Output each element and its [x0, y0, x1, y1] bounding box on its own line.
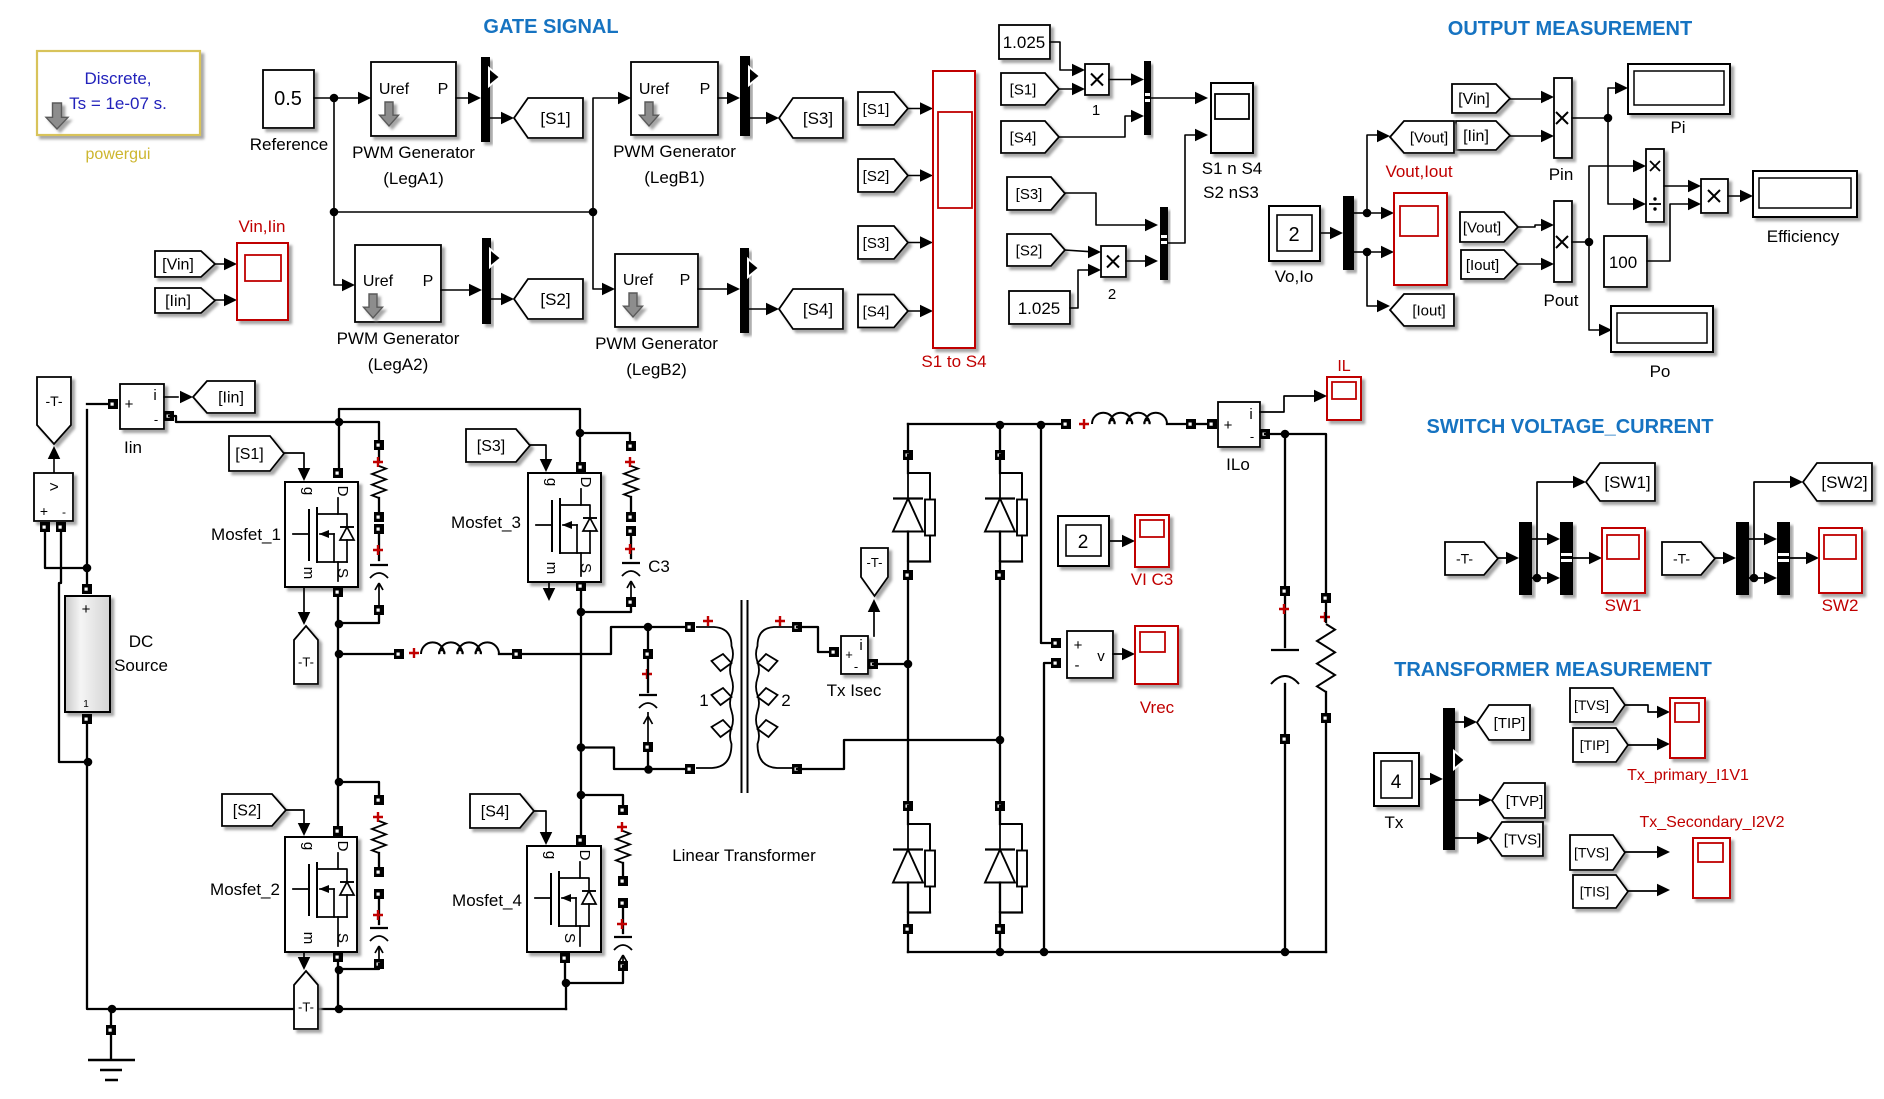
svg-text:[TVS]: [TVS] [1574, 844, 1609, 860]
svg-text:[S1]: [S1] [235, 446, 263, 463]
svg-text:[SW2]: [SW2] [1821, 473, 1867, 492]
svg-text:1.025: 1.025 [1018, 299, 1061, 318]
svg-text:Vrec: Vrec [1140, 698, 1175, 717]
svg-text:+: + [40, 503, 48, 519]
svg-text:Tx Isec: Tx Isec [827, 681, 882, 700]
svg-text:[Vin]: [Vin] [162, 257, 194, 274]
svg-text:g: g [542, 851, 559, 859]
svg-text:[Vout]: [Vout] [1410, 129, 1448, 146]
svg-text:>: > [49, 479, 58, 496]
svg-text:g: g [300, 842, 317, 850]
svg-text:S1 n S4: S1 n S4 [1202, 159, 1263, 178]
svg-text:m: m [543, 562, 560, 575]
svg-text:IL: IL [1337, 358, 1350, 375]
svg-text:Pin: Pin [1549, 165, 1574, 184]
svg-text:Source: Source [114, 656, 168, 675]
svg-text:GATE SIGNAL: GATE SIGNAL [483, 16, 618, 38]
svg-text:DC: DC [129, 632, 154, 651]
svg-text:[S2]: [S2] [1016, 242, 1043, 259]
svg-text:Uref: Uref [363, 273, 394, 290]
svg-text:[Iin]: [Iin] [165, 293, 191, 310]
svg-text:[SW1]: [SW1] [1604, 473, 1650, 492]
svg-text:[TVP]: [TVP] [1506, 793, 1544, 810]
svg-text:-T-: -T- [1456, 550, 1473, 566]
svg-text:P: P [680, 272, 691, 289]
svg-text:P: P [700, 81, 711, 98]
svg-text:1: 1 [83, 699, 89, 710]
svg-text:SW2: SW2 [1822, 596, 1859, 615]
svg-text:Uref: Uref [639, 81, 670, 98]
svg-text:PWM Generator: PWM Generator [337, 329, 460, 348]
svg-text:D: D [577, 477, 594, 488]
svg-text:Po: Po [1650, 362, 1671, 381]
svg-text:i: i [153, 387, 156, 404]
svg-text:+: + [845, 647, 853, 662]
svg-text:C3: C3 [648, 557, 670, 576]
svg-text:PWM Generator: PWM Generator [595, 334, 718, 353]
svg-text:Mosfet_3: Mosfet_3 [451, 513, 521, 532]
svg-text:(LegA2): (LegA2) [368, 355, 428, 374]
svg-text:Tx: Tx [1385, 813, 1404, 832]
svg-text:[S2]: [S2] [863, 168, 890, 185]
svg-text:i: i [1249, 406, 1252, 423]
svg-text:g: g [300, 487, 317, 495]
svg-text:Tx_primary_I1V1: Tx_primary_I1V1 [1627, 767, 1749, 784]
svg-text:-: - [154, 412, 158, 427]
svg-text:+: + [1224, 417, 1233, 434]
svg-text:-T-: -T- [298, 655, 314, 670]
svg-text:-: - [854, 659, 858, 674]
svg-text:[S3]: [S3] [803, 109, 833, 128]
svg-text:[S1]: [S1] [1010, 81, 1037, 98]
svg-text:SW1: SW1 [1605, 596, 1642, 615]
svg-text:S2 nS3: S2 nS3 [1203, 183, 1259, 202]
svg-text:-T-: -T- [298, 1000, 314, 1015]
svg-text:PWM Generator: PWM Generator [352, 143, 475, 162]
svg-text:[Iin]: [Iin] [1463, 128, 1489, 145]
svg-text:[Iout]: [Iout] [1466, 257, 1499, 274]
svg-text:[S3]: [S3] [477, 438, 505, 455]
svg-text:Efficiency: Efficiency [1767, 227, 1840, 246]
svg-text:Linear Transformer: Linear Transformer [672, 846, 816, 865]
svg-text:SWITCH VOLTAGE_CURRENT: SWITCH VOLTAGE_CURRENT [1426, 416, 1713, 438]
svg-text:Mosfet_2: Mosfet_2 [210, 880, 280, 899]
svg-text:[S2]: [S2] [233, 803, 261, 820]
svg-text:+: + [82, 601, 91, 618]
svg-text:2: 2 [1288, 224, 1299, 246]
svg-text:P: P [423, 273, 434, 290]
svg-text:Reference: Reference [250, 135, 328, 154]
svg-text:P: P [438, 81, 449, 98]
svg-text:S: S [577, 563, 594, 573]
svg-text:Pout: Pout [1544, 291, 1579, 310]
svg-text:Iin: Iin [124, 438, 142, 457]
svg-text:PWM Generator: PWM Generator [613, 142, 736, 161]
svg-text:Ts = 1e-07 s.: Ts = 1e-07 s. [69, 94, 167, 113]
svg-text:D: D [334, 841, 351, 852]
svg-text:Vout,Iout: Vout,Iout [1385, 162, 1452, 181]
svg-text:1: 1 [699, 691, 708, 710]
svg-text:[S4]: [S4] [1010, 129, 1037, 146]
svg-text:OUTPUT MEASUREMENT: OUTPUT MEASUREMENT [1448, 18, 1692, 40]
svg-text:m: m [300, 932, 317, 945]
svg-text:S1 to S4: S1 to S4 [921, 352, 986, 371]
svg-text:2: 2 [1078, 532, 1089, 553]
svg-text:Discrete,: Discrete, [84, 69, 151, 88]
svg-text:[S4]: [S4] [481, 804, 509, 821]
svg-text:ILo: ILo [1226, 455, 1250, 474]
svg-text:[Vin]: [Vin] [1458, 91, 1490, 108]
svg-text:TRANSFORMER MEASUREMENT: TRANSFORMER MEASUREMENT [1394, 659, 1712, 681]
svg-text:0.5: 0.5 [274, 88, 302, 110]
svg-text:Tx_Secondary_I2V2: Tx_Secondary_I2V2 [1640, 814, 1785, 831]
svg-text:4: 4 [1391, 772, 1402, 793]
svg-text:(LegB2): (LegB2) [626, 360, 686, 379]
svg-text:-T-: -T- [45, 393, 62, 409]
svg-text:-: - [1250, 429, 1254, 444]
svg-text:S: S [561, 933, 578, 943]
svg-text:-: - [62, 505, 66, 519]
svg-text:[S1]: [S1] [540, 109, 570, 128]
svg-text:v: v [1097, 648, 1105, 665]
svg-text:[S1]: [S1] [863, 101, 890, 118]
svg-text:D: D [576, 850, 593, 861]
svg-text:powergui: powergui [86, 146, 151, 163]
svg-text:D: D [334, 486, 351, 497]
svg-text:-T-: -T- [1673, 550, 1690, 566]
svg-text:S: S [334, 933, 351, 943]
svg-text:(LegB1): (LegB1) [644, 168, 704, 187]
svg-text:Pi: Pi [1670, 118, 1685, 137]
svg-text:VI C3: VI C3 [1131, 570, 1174, 589]
svg-text:-: - [1075, 657, 1080, 674]
svg-text:Mosfet_1: Mosfet_1 [211, 525, 281, 544]
svg-text:[TVS]: [TVS] [1574, 697, 1609, 713]
svg-text:[S4]: [S4] [863, 303, 890, 320]
svg-text:Uref: Uref [379, 81, 410, 98]
svg-text:m: m [300, 567, 317, 580]
svg-text:[S2]: [S2] [540, 290, 570, 309]
svg-text:[TIP]: [TIP] [1580, 737, 1610, 753]
svg-text:100: 100 [1609, 253, 1637, 272]
svg-text:[TIP]: [TIP] [1494, 715, 1526, 732]
svg-text:[Iin]: [Iin] [218, 390, 244, 407]
svg-text:Uref: Uref [623, 272, 654, 289]
svg-text:Vo,Io: Vo,Io [1275, 267, 1314, 286]
svg-text:S: S [334, 568, 351, 578]
svg-text:[TVS]: [TVS] [1504, 831, 1542, 848]
svg-text:2: 2 [1108, 286, 1116, 303]
svg-text:[S3]: [S3] [863, 235, 890, 252]
svg-text:1: 1 [1092, 102, 1100, 119]
svg-text:[S4]: [S4] [803, 300, 833, 319]
svg-text:-T-: -T- [867, 555, 883, 570]
svg-text:(LegA1): (LegA1) [383, 169, 443, 188]
svg-text:Mosfet_4: Mosfet_4 [452, 891, 522, 910]
svg-text:[Vout]: [Vout] [1463, 219, 1501, 236]
svg-text:+: + [125, 396, 134, 413]
svg-text:i: i [859, 637, 862, 654]
svg-text:[Iout]: [Iout] [1412, 302, 1445, 319]
svg-text:2: 2 [781, 691, 790, 710]
svg-text:[TIS]: [TIS] [1580, 883, 1610, 899]
svg-text:1.025: 1.025 [1003, 33, 1046, 52]
svg-text:[S3]: [S3] [1016, 186, 1043, 203]
svg-text:g: g [543, 478, 560, 486]
svg-text:Vin,Iin: Vin,Iin [239, 217, 286, 236]
svg-text:+: + [1074, 637, 1083, 654]
